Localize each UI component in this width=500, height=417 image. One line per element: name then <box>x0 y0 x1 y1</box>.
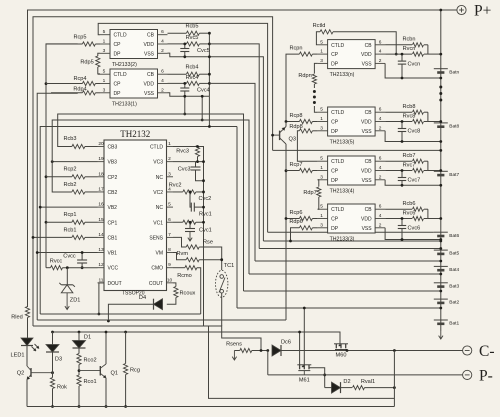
svg-text:Rvc7: Rvc7 <box>403 162 416 168</box>
svg-text:4: 4 <box>379 213 382 219</box>
svg-text:18: 18 <box>98 171 104 177</box>
junction cell5 vdd <box>439 247 442 250</box>
svg-text:VC3: VC3 <box>153 160 163 166</box>
svg-text:TH2133(3): TH2133(3) <box>330 237 355 243</box>
svg-text:4: 4 <box>161 39 164 45</box>
junction M61 source P- <box>323 374 326 377</box>
junction vss4 drop2 <box>201 119 204 122</box>
svg-text:COUT: COUT <box>149 281 163 287</box>
svg-text:8: 8 <box>168 247 171 253</box>
svg-text:Bat2: Bat2 <box>449 300 459 306</box>
junction D1 top <box>78 331 81 334</box>
junction ZD1 tap <box>66 266 69 269</box>
resistor Rsens <box>226 342 252 353</box>
svg-text:CTLD: CTLD <box>150 145 163 151</box>
wire bus1 <box>40 313 201 315</box>
resistor Rdp8 <box>289 124 312 133</box>
svg-text:6: 6 <box>161 69 164 75</box>
diode D1 <box>73 335 92 349</box>
terminal P+ <box>457 2 491 19</box>
wire Rcp5 to rail <box>46 43 82 45</box>
battery Bat8 <box>434 123 460 130</box>
transistor Q2 <box>17 366 53 380</box>
svg-text:6: 6 <box>379 156 382 162</box>
terminal C- <box>463 343 495 360</box>
svg-text:CP1: CP1 <box>108 220 118 226</box>
svg-text:DP: DP <box>114 91 122 97</box>
svg-text:Rcb2: Rcb2 <box>63 182 76 188</box>
svg-text:CMO: CMO <box>151 266 163 272</box>
svg-text:Rvm: Rvm <box>177 251 189 257</box>
svg-text:DP: DP <box>331 129 339 135</box>
svg-text:Cvc1: Cvc1 <box>199 228 212 234</box>
wire VB1 pin13 <box>37 252 97 254</box>
svg-text:DP: DP <box>331 226 339 232</box>
svg-text:4: 4 <box>379 49 382 55</box>
svg-text:TH2133(5): TH2133(5) <box>330 140 355 146</box>
resistor Rcb4 <box>185 65 199 77</box>
wire D3 to Rok <box>52 352 54 378</box>
resistor Rdp5 <box>80 53 100 74</box>
zener ZD1 <box>59 283 80 304</box>
svg-text:NC: NC <box>156 175 164 181</box>
svg-text:CP: CP <box>114 82 122 88</box>
svg-text:D2: D2 <box>343 379 350 385</box>
resistor Rcb2 <box>63 182 84 194</box>
battery Bat2 <box>434 299 460 306</box>
junction sens a <box>260 349 263 352</box>
svg-text:TH2133(2): TH2133(2) <box>112 62 137 68</box>
svg-text:CP: CP <box>331 52 339 58</box>
wire M60 drain link <box>335 343 337 345</box>
svg-text:Rled: Rled <box>11 315 23 321</box>
junction cell2/3 <box>439 290 442 293</box>
resistor Rcp5 <box>73 35 95 46</box>
svg-text:Rcoux: Rcoux <box>180 291 196 297</box>
svg-text:Cvc4: Cvc4 <box>197 88 210 94</box>
svg-text:9: 9 <box>168 262 171 268</box>
wire VDD4 <box>168 82 210 84</box>
junction Cvc3 bus <box>202 179 205 182</box>
svg-text:VM: VM <box>156 251 164 257</box>
junction Rvc3 top <box>196 145 199 148</box>
svg-text:Q3: Q3 <box>289 137 296 143</box>
svg-text:Rcbn: Rcbn <box>402 37 415 43</box>
wire vss4 drop2 <box>201 96 203 120</box>
resistor Rdp4 <box>73 87 95 95</box>
svg-text:Rco2: Rco2 <box>84 358 97 364</box>
wire COUT <box>173 283 176 287</box>
cluster 7 right <box>385 153 442 187</box>
wire CMO <box>173 268 201 314</box>
wire bus2 <box>37 319 286 321</box>
wire CTLD5 loop <box>98 23 267 232</box>
resistor Rvc4 <box>186 75 200 86</box>
svg-text:Rdp6: Rdp6 <box>289 219 302 225</box>
svg-text:Rcp5: Rcp5 <box>73 35 86 41</box>
junction col end <box>208 125 211 128</box>
svg-text:LED1: LED1 <box>11 353 25 359</box>
svg-text:4: 4 <box>161 78 164 84</box>
junction VC2 bus <box>202 191 205 194</box>
op-amp U8 TH2133(8) <box>318 107 386 146</box>
svg-text:DP: DP <box>114 51 122 57</box>
svg-text:CB: CB <box>147 33 155 39</box>
svg-text:5: 5 <box>320 204 323 210</box>
capacitor Cvc1 <box>185 228 212 234</box>
wire VB2 pin16 <box>40 206 97 208</box>
svg-text:DOUT: DOUT <box>108 281 122 287</box>
svg-text:Cvc7: Cvc7 <box>408 178 421 184</box>
junction cell8 bottom <box>439 149 442 152</box>
svg-text:VSS: VSS <box>144 51 155 57</box>
svg-text:Bat3: Bat3 <box>449 283 459 289</box>
wire Rcpn <box>286 54 318 126</box>
junction VC3 bus <box>202 160 205 163</box>
resistor Rcb1 <box>63 227 84 239</box>
junction Rco1 bottom <box>78 405 81 408</box>
wire P+ rail top and left <box>28 10 441 307</box>
battery Bat1 <box>434 320 460 327</box>
wire Rdp4 to pin <box>95 92 100 94</box>
wire M61 drain link <box>299 332 301 365</box>
junction Cvc1 top <box>189 221 192 224</box>
wire VC3 <box>173 161 204 163</box>
svg-text:Rcb5: Rcb5 <box>185 24 198 30</box>
svg-text:2: 2 <box>379 222 382 228</box>
junction Q3 base <box>271 134 274 137</box>
wire bus cell2 to battery <box>244 290 441 292</box>
battery Bat3 <box>434 283 460 290</box>
op-amp U5 TH2133(5) <box>100 29 168 68</box>
junction Cvc5 top <box>183 43 186 46</box>
diode Dc6 <box>272 340 291 357</box>
svg-text:6: 6 <box>379 39 382 45</box>
wire Q2 emitter <box>26 380 29 407</box>
wire Cvc4 top <box>184 83 186 88</box>
wire Q3 emitter bus <box>285 122 286 128</box>
wire Q1 collector <box>105 332 107 364</box>
junction Cvcc bottom <box>81 266 84 269</box>
svg-text:15: 15 <box>98 217 104 223</box>
junction CB1 rail <box>32 236 35 239</box>
wire CB2 net <box>52 120 249 274</box>
svg-text:M61: M61 <box>299 378 310 384</box>
junction Rvc4 <box>208 82 211 85</box>
svg-text:DP: DP <box>331 61 339 67</box>
svg-text:C-: C- <box>479 343 495 360</box>
svg-text:P+: P+ <box>474 2 491 19</box>
junction Q1 collector <box>105 331 108 334</box>
wire Rcp7 <box>286 170 318 172</box>
svg-text:Rvc6: Rvc6 <box>403 210 416 216</box>
svg-text:CB: CB <box>365 110 373 116</box>
svg-text:Bat8: Bat8 <box>449 124 459 130</box>
svg-text:Rcp6: Rcp6 <box>289 210 302 216</box>
wire Rcp4 to rail <box>46 83 82 85</box>
svg-text:P-: P- <box>479 367 493 384</box>
junction cell1/2 <box>439 307 442 310</box>
resistor Rvc5 <box>186 35 200 46</box>
resistor Rok <box>50 378 67 391</box>
svg-text:6: 6 <box>379 204 382 210</box>
svg-text:D3: D3 <box>55 357 62 363</box>
wire rail L3 <box>40 127 237 315</box>
wire P- line <box>268 374 463 376</box>
svg-text:17: 17 <box>98 186 104 192</box>
svg-text:1: 1 <box>103 78 106 84</box>
cluster 8 right <box>385 104 442 143</box>
svg-text:1: 1 <box>320 116 323 122</box>
wire CTLD1 bus <box>173 147 394 399</box>
LED LED1 <box>11 338 40 359</box>
svg-text:CP2: CP2 <box>108 175 118 181</box>
wire Cvc5 bottom <box>184 52 186 57</box>
wire Cvcc bottom <box>81 263 83 268</box>
junction Rval1 node <box>393 386 396 389</box>
svg-text:CB: CB <box>147 72 155 78</box>
svg-text:Rvc3: Rvc3 <box>176 149 189 155</box>
svg-text:ZD1: ZD1 <box>70 298 81 304</box>
svg-text:20: 20 <box>98 141 104 147</box>
junction D3 top <box>51 331 54 334</box>
svg-text:Rcp7: Rcp7 <box>289 162 302 168</box>
svg-text:Rse: Rse <box>203 240 213 246</box>
svg-text:Bat1: Bat1 <box>449 321 459 327</box>
resistor Rcmo <box>177 266 197 280</box>
svg-text:Rcb8: Rcb8 <box>402 104 415 110</box>
wire Cvc4 drop <box>184 96 186 114</box>
wire Rcoux bottom <box>167 298 176 305</box>
battery Bat4 <box>434 266 460 273</box>
svg-text:CP: CP <box>114 42 122 48</box>
wire VCC <box>46 267 98 269</box>
wire bus vss5 to battery <box>263 240 440 242</box>
svg-text:6: 6 <box>161 29 164 35</box>
svg-text:Cvc5: Cvc5 <box>197 48 210 54</box>
svg-text:VSS: VSS <box>144 91 155 97</box>
svg-text:Rcmo: Rcmo <box>177 273 192 279</box>
svg-text:CB: CB <box>365 207 373 213</box>
svg-text:Rok: Rok <box>57 385 67 391</box>
svg-text:CB2: CB2 <box>108 190 118 196</box>
wire rail2 to cell8 bottom <box>273 149 441 151</box>
wire CB4 <box>168 73 210 75</box>
svg-text:VB1: VB1 <box>108 251 118 257</box>
junction DOUT bus <box>98 313 101 316</box>
svg-text:TH2133(1): TH2133(1) <box>112 102 137 108</box>
svg-text:VB3: VB3 <box>108 160 118 166</box>
svg-text:Rcp8: Rcp8 <box>289 113 302 119</box>
svg-text:Bat5: Bat5 <box>449 251 459 257</box>
resistor Rse <box>186 240 213 250</box>
wire bus3 <box>33 326 261 351</box>
svg-text:5: 5 <box>103 29 106 35</box>
svg-text:14: 14 <box>98 232 104 238</box>
svg-text:CTLD: CTLD <box>331 159 344 165</box>
op-amp U7 TH2133(7) <box>318 156 386 195</box>
svg-text:Rsens: Rsens <box>226 342 242 348</box>
junction C- node <box>393 349 396 352</box>
svg-text:5: 5 <box>320 39 323 45</box>
svg-text:Rcb1: Rcb1 <box>63 227 76 233</box>
svg-text:Batn: Batn <box>449 69 459 75</box>
svg-text:Rcb7: Rcb7 <box>402 153 415 159</box>
svg-text:2: 2 <box>379 58 382 64</box>
svg-text:TH2133(n): TH2133(n) <box>330 72 355 78</box>
svg-text:D4: D4 <box>139 295 146 301</box>
svg-text:Rcb6: Rcb6 <box>402 201 415 207</box>
svg-text:1: 1 <box>103 39 106 45</box>
svg-text:6: 6 <box>379 107 382 113</box>
battery Bat6 <box>434 232 460 239</box>
wire VSS4 return <box>168 93 210 97</box>
junction Q3 bus7 <box>285 169 288 172</box>
wire M61 gate drive <box>303 308 305 365</box>
wire VC1 <box>173 221 204 223</box>
resistor Rcp4 <box>73 76 95 86</box>
svg-text:CTLD: CTLD <box>331 207 344 213</box>
svg-text:2: 2 <box>161 87 164 93</box>
wire Rvm out <box>199 259 222 261</box>
wire Q1 emitter <box>105 378 107 407</box>
wire bus cell3 to battery2 <box>249 273 441 275</box>
junction Cvc4 top <box>183 82 186 85</box>
resistor Rdp6 <box>289 219 312 230</box>
svg-text:Rvc1: Rvc1 <box>199 212 212 218</box>
wire bundle v237 <box>236 127 238 309</box>
junction Rvc3 VC3 <box>196 160 199 163</box>
capacitor Cvc2 <box>191 196 211 212</box>
junction Rvc5 <box>208 43 211 46</box>
junction Cvc2 bus <box>202 206 205 209</box>
wire VM <box>173 253 186 260</box>
svg-text:Rctld: Rctld <box>313 23 326 29</box>
junction CP4 on rail <box>45 82 48 85</box>
svg-text:VB2: VB2 <box>108 205 118 211</box>
svg-text:D1: D1 <box>84 335 91 341</box>
wire CB3 net <box>58 114 244 291</box>
op-amp Un TH2133(n) <box>318 39 386 78</box>
wire bus286 lower <box>285 144 287 320</box>
cluster n right <box>385 37 442 80</box>
svg-text:5: 5 <box>320 156 323 162</box>
wire Rvc3 bottom <box>197 157 199 162</box>
svg-text:CB: CB <box>365 43 373 49</box>
svg-text:3: 3 <box>320 125 323 131</box>
junction Rcp8 <box>285 120 288 123</box>
junction M60 source <box>346 349 349 352</box>
wire CB1 <box>33 236 98 238</box>
wire rail CP bus <box>46 44 78 268</box>
svg-text:1: 1 <box>168 141 171 147</box>
svg-text:3: 3 <box>320 174 323 180</box>
wire VDD5 to bus <box>209 44 259 249</box>
wire Rco2 to Rco1 <box>78 365 80 376</box>
svg-text:VC1: VC1 <box>153 220 163 226</box>
svg-text:1: 1 <box>320 49 323 55</box>
battery Bat7 <box>434 171 460 178</box>
junction Rctld vdd <box>395 53 398 56</box>
svg-text:CB1: CB1 <box>108 235 118 241</box>
junction CP1 on rail <box>45 221 48 224</box>
svg-text:Bat7: Bat7 <box>449 172 459 178</box>
wire Rcg bottom <box>125 375 127 407</box>
svg-text:Rcp4: Rcp4 <box>73 76 86 82</box>
junction cell3/4 <box>439 273 442 276</box>
svg-text:VCC: VCC <box>108 266 119 272</box>
transistor Q1 <box>79 364 118 378</box>
wire Rcp5 to pin <box>95 43 100 45</box>
wire DOUT <box>99 283 104 314</box>
wire D3 lead <box>52 332 54 345</box>
svg-text:CTLD: CTLD <box>114 72 127 78</box>
svg-text:Bat6: Bat6 <box>449 233 459 239</box>
wire battery column <box>440 10 442 331</box>
svg-text:2: 2 <box>161 48 164 54</box>
ground arrow below Bat1 <box>439 331 443 339</box>
wire bus4 <box>53 332 341 344</box>
battery Bat5 <box>434 250 460 257</box>
svg-text:1: 1 <box>320 165 323 171</box>
svg-text:Rvcn: Rvcn <box>403 46 416 52</box>
junction D4 bus <box>107 320 110 323</box>
svg-text:CP: CP <box>331 169 339 175</box>
wire SENS <box>173 237 186 247</box>
resistor Rvcc <box>50 258 63 270</box>
diode D4 <box>139 295 163 310</box>
svg-text:5: 5 <box>103 69 106 75</box>
svg-text:Rdp4: Rdp4 <box>73 87 86 93</box>
junction Rcg bottom <box>124 405 127 408</box>
svg-text:Rvc4: Rvc4 <box>186 75 199 81</box>
wire Rvc3 top <box>197 146 199 147</box>
junction Q2 base node <box>51 371 54 374</box>
wire gate bypass <box>267 351 269 375</box>
svg-text:3: 3 <box>103 48 106 54</box>
junction sens b <box>266 349 269 352</box>
wire D1 to Rco2 <box>78 348 80 354</box>
svg-text:16: 16 <box>98 202 104 208</box>
svg-text:Rvc2: Rvc2 <box>169 183 182 189</box>
resistor Rcp6 <box>289 210 312 221</box>
resistor Rvm <box>177 251 200 262</box>
label TC1 <box>224 263 235 269</box>
wire D2 to Rval1 <box>341 387 353 389</box>
wire D1 lead <box>78 332 80 341</box>
wire Rok bottom <box>52 389 54 407</box>
wire CB5 <box>168 32 210 34</box>
wire Rval1 out <box>365 387 395 389</box>
junction Rcb4 <box>208 73 211 76</box>
svg-text:Cvc2: Cvc2 <box>199 196 212 202</box>
junction Rvm TC1 <box>220 258 223 261</box>
resistor Rcpn <box>289 46 312 57</box>
wire Cvc3 top <box>195 162 197 167</box>
svg-text:VDD: VDD <box>143 82 154 88</box>
svg-text:3: 3 <box>103 87 106 93</box>
svg-text:19: 19 <box>98 156 104 162</box>
svg-text:VC2: VC2 <box>153 190 163 196</box>
svg-text:VSS: VSS <box>362 178 373 184</box>
svg-text:Rdp8: Rdp8 <box>289 124 302 130</box>
wire rail2 left <box>33 17 273 326</box>
wire bottom rail <box>28 406 395 408</box>
junction M61 gate drive <box>303 307 306 310</box>
wire Cvc4 bottom <box>184 91 186 96</box>
wire Rse to TC1 <box>199 247 222 270</box>
wire M60 drain top <box>339 343 341 345</box>
